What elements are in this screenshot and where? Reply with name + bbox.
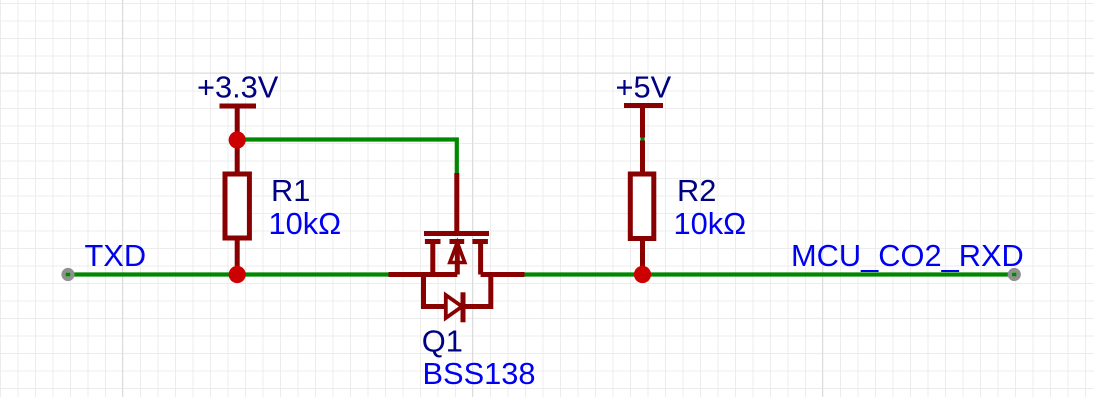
gate pin [454, 173, 459, 236]
terminal dot TXD end [64, 270, 73, 279]
svg-text:+3.3V: +3.3V [197, 70, 279, 105]
body diode loop of Q1 [424, 275, 491, 323]
svg-text:R1: R1 [271, 173, 310, 208]
svg-text:R2: R2 [677, 173, 716, 208]
svg-text:BSS138: BSS138 [423, 356, 536, 391]
source lead [389, 272, 458, 277]
junction at R1 / TXD wire [229, 266, 246, 283]
channel segment middle [450, 239, 465, 244]
junction at +3.3V / R1 / gate tap [229, 131, 246, 148]
body arrow of Q1 [450, 243, 465, 263]
diode cathode bar [461, 292, 466, 322]
wire +5V to R2 (short segment) [640, 134, 644, 142]
power symbol +3.3V [220, 106, 257, 140]
svg-text:10kΩ: 10kΩ [269, 206, 342, 241]
terminal dot RXD end [1010, 270, 1019, 279]
wire TXD net: left horizontal [65, 272, 389, 276]
drain leg [478, 242, 483, 275]
svg-text:10kΩ: 10kΩ [674, 206, 747, 241]
gate bar [424, 231, 489, 236]
resistor R1 [225, 140, 249, 275]
channel segment left [425, 239, 441, 244]
power symbol +5V [624, 106, 663, 138]
wire gate tap from +3.3V junction to Q1 gate [237, 140, 457, 175]
svg-text:Q1: Q1 [422, 324, 463, 359]
source leg [430, 242, 435, 275]
junction at R2 / RXD wire [634, 266, 651, 283]
wire MCU_CO2_RXD net: right horizontal [525, 272, 1017, 276]
transistor Q1 (BSS138 MOSFET) [389, 173, 525, 275]
body leg with arrow stem [455, 244, 460, 275]
svg-text:+5V: +5V [616, 70, 672, 105]
drain lead [481, 272, 525, 277]
channel segment right [472, 239, 488, 244]
svg-text:TXD: TXD [85, 238, 147, 273]
resistor R2 [630, 141, 654, 275]
svg-text:MCU_CO2_RXD: MCU_CO2_RXD [791, 238, 1024, 273]
diode triangle [446, 295, 462, 318]
